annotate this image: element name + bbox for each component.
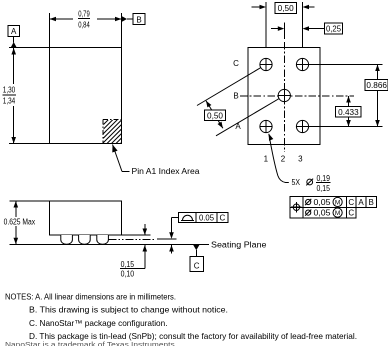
svg-text:0.625 Max: 0.625 Max xyxy=(4,218,35,227)
svg-text:NanoStar is a trademark of Tex: NanoStar is a trademark of Texas Instrum… xyxy=(5,342,177,346)
svg-text:B. This drawing is subject to: B. This drawing is subject to change wit… xyxy=(29,305,228,315)
svg-text:A: A xyxy=(358,198,364,207)
svg-text:A: A xyxy=(11,27,17,36)
svg-text:1,30: 1,30 xyxy=(3,86,16,95)
svg-text:B: B xyxy=(136,15,141,24)
svg-text:D. This package is tin-lead (S: D. This package is tin-lead (SnPb); cons… xyxy=(29,331,357,341)
svg-text:B: B xyxy=(233,92,238,101)
svg-text:1: 1 xyxy=(264,155,269,164)
svg-text:0,50: 0,50 xyxy=(207,111,224,120)
svg-text:B: B xyxy=(369,198,374,207)
svg-text:Seating Plane: Seating Plane xyxy=(211,240,267,249)
svg-text:C: C xyxy=(348,198,354,207)
svg-text:0,05: 0,05 xyxy=(314,198,332,207)
svg-text:0,05: 0,05 xyxy=(314,209,332,218)
svg-text:A: A xyxy=(235,122,241,131)
svg-text:C. NanoStar™ package configura: C. NanoStar™ package configuration. xyxy=(29,318,168,328)
svg-text:0,25: 0,25 xyxy=(326,25,342,34)
svg-text:NOTES: A. All linear dimension: NOTES: A. All linear dimensions are in m… xyxy=(5,292,176,302)
svg-text:0,15: 0,15 xyxy=(121,260,135,269)
svg-text:C: C xyxy=(348,209,354,218)
svg-text:C: C xyxy=(220,213,226,222)
svg-text:3: 3 xyxy=(298,155,303,164)
svg-text:M: M xyxy=(335,199,340,206)
svg-text:C: C xyxy=(194,261,200,270)
svg-text:0.433: 0.433 xyxy=(338,108,359,117)
svg-text:0.866: 0.866 xyxy=(366,81,387,90)
svg-text:0,15: 0,15 xyxy=(316,184,330,193)
svg-text:C: C xyxy=(233,59,239,68)
svg-text:2: 2 xyxy=(281,155,286,164)
svg-text:M: M xyxy=(335,210,340,217)
svg-text:0,19: 0,19 xyxy=(316,174,330,183)
svg-text:0,84: 0,84 xyxy=(78,21,90,30)
svg-text:Pin A1 Index Area: Pin A1 Index Area xyxy=(132,167,201,176)
svg-text:0,50: 0,50 xyxy=(278,4,295,13)
svg-text:5X: 5X xyxy=(292,178,301,187)
svg-text:1,34: 1,34 xyxy=(3,96,16,105)
svg-text:0.05: 0.05 xyxy=(199,213,215,222)
svg-text:0,10: 0,10 xyxy=(121,270,135,279)
svg-text:0,79: 0,79 xyxy=(78,10,90,19)
